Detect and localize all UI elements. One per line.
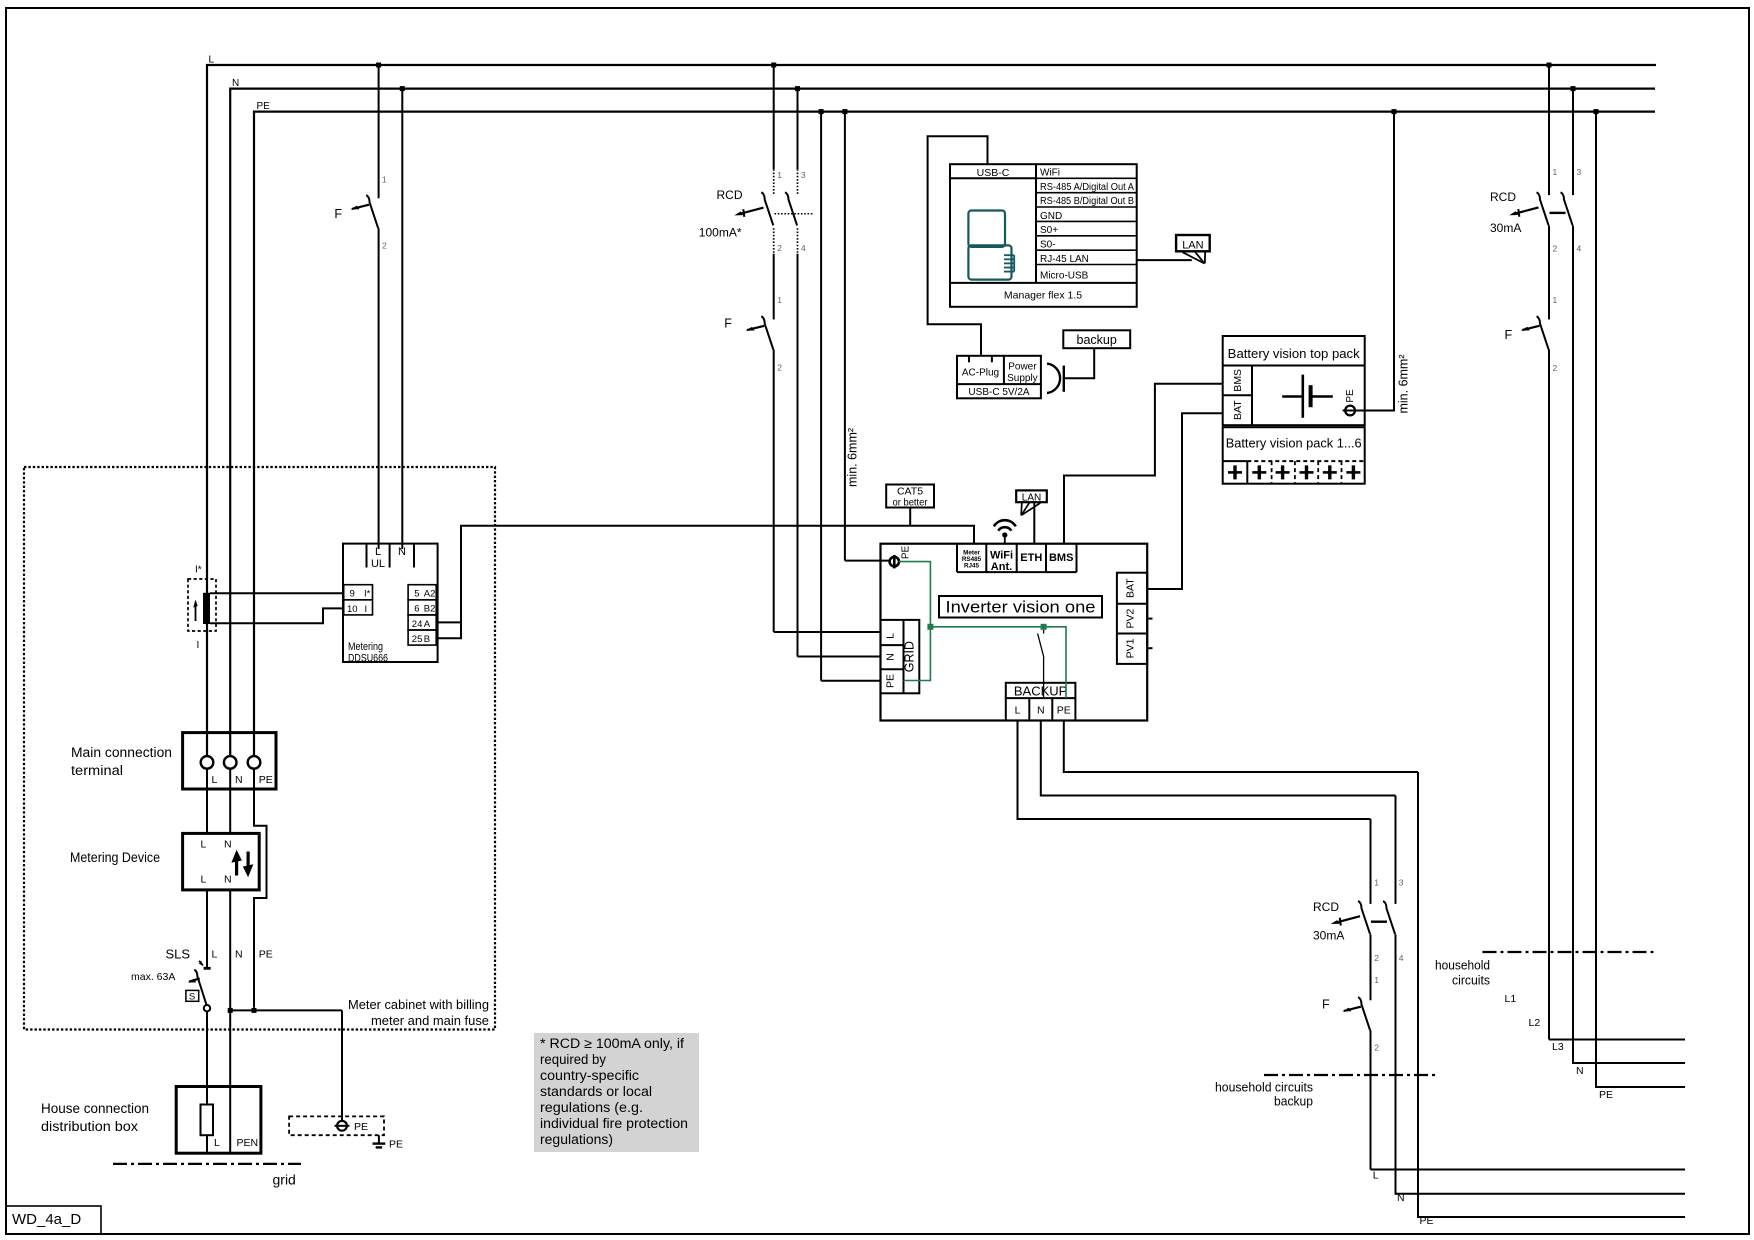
svg-text:PV1: PV1 — [1125, 638, 1137, 658]
svg-text:1: 1 — [1374, 975, 1379, 985]
svg-text:Inverter vision one: Inverter vision one — [946, 598, 1096, 617]
svg-text:S0-: S0- — [1040, 240, 1056, 251]
svg-text:1: 1 — [382, 175, 387, 185]
svg-text:regulations): regulations) — [540, 1132, 613, 1147]
svg-text:100mA*: 100mA* — [699, 226, 742, 240]
svg-text:5: 5 — [414, 589, 419, 600]
svg-text:Meter cabinet with billing: Meter cabinet with billing — [348, 997, 489, 1012]
svg-text:RJ45: RJ45 — [964, 563, 980, 570]
svg-text:I: I — [365, 604, 368, 615]
svg-text:household circuits: household circuits — [1215, 1080, 1313, 1095]
svg-text:individual fire protection: individual fire protection — [540, 1116, 688, 1131]
svg-text:RCD: RCD — [1313, 900, 1339, 914]
svg-text:PE: PE — [1057, 705, 1071, 717]
svg-text:Ant.: Ant. — [991, 561, 1012, 573]
svg-text:PV2: PV2 — [1125, 609, 1137, 629]
svg-text:L: L — [1015, 705, 1021, 717]
svg-text:max. 63A: max. 63A — [131, 971, 175, 983]
svg-text:B2: B2 — [424, 604, 436, 615]
svg-text:required by: required by — [540, 1052, 606, 1067]
svg-text:BMS: BMS — [1049, 552, 1073, 564]
svg-text:AC-Plug: AC-Plug — [962, 368, 999, 379]
svg-text:I*: I* — [195, 565, 202, 576]
svg-text:L: L — [375, 546, 381, 558]
svg-text:1: 1 — [1553, 295, 1558, 305]
svg-text:A2: A2 — [424, 589, 436, 600]
svg-text:PE: PE — [1599, 1089, 1613, 1101]
svg-text:PE: PE — [1345, 389, 1356, 403]
svg-text:BAT: BAT — [1232, 400, 1244, 420]
svg-text:L3: L3 — [1552, 1041, 1564, 1053]
svg-text:DDSU666: DDSU666 — [348, 653, 388, 665]
svg-text:USB-C: USB-C — [977, 167, 1010, 179]
svg-text:2: 2 — [1553, 363, 1558, 373]
svg-text:circuits: circuits — [1452, 973, 1490, 988]
svg-text:Main connection: Main connection — [71, 745, 172, 760]
svg-text:F: F — [724, 317, 732, 331]
svg-text:household: household — [1435, 958, 1490, 973]
svg-text:N: N — [232, 78, 239, 89]
svg-text:S: S — [189, 992, 195, 1003]
svg-text:PE: PE — [259, 774, 273, 786]
svg-text:PE: PE — [354, 1121, 368, 1133]
svg-text:A: A — [424, 619, 431, 630]
svg-text:2: 2 — [777, 243, 782, 253]
svg-text:SLS: SLS — [166, 947, 191, 962]
svg-text:I*: I* — [364, 589, 371, 600]
svg-text:L: L — [885, 633, 897, 639]
svg-text:Supply: Supply — [1007, 373, 1038, 384]
svg-text:BMS: BMS — [1232, 369, 1244, 392]
svg-text:BAT: BAT — [1125, 578, 1137, 598]
svg-text:standards or local: standards or local — [540, 1084, 652, 1099]
svg-text:PE: PE — [389, 1139, 403, 1151]
svg-text:N: N — [224, 874, 232, 886]
svg-text:USB-C 5V/2A: USB-C 5V/2A — [968, 387, 1029, 398]
svg-text:L: L — [209, 55, 215, 66]
svg-text:L1: L1 — [1505, 993, 1517, 1005]
svg-text:F: F — [1505, 328, 1513, 342]
svg-text:Battery vision pack 1...6: Battery vision pack 1...6 — [1226, 436, 1362, 451]
svg-text:PE: PE — [257, 101, 271, 112]
svg-text:min. 6mm²: min. 6mm² — [846, 428, 860, 487]
svg-text:2: 2 — [1374, 953, 1379, 963]
svg-text:meter and main fuse: meter and main fuse — [371, 1013, 489, 1028]
svg-text:GND: GND — [1040, 211, 1062, 222]
svg-text:PEN: PEN — [237, 1137, 259, 1149]
svg-text:GRID: GRID — [903, 641, 917, 672]
svg-text:BACKUP: BACKUP — [1014, 683, 1067, 698]
svg-text:3: 3 — [801, 170, 806, 180]
svg-text:Power: Power — [1008, 362, 1037, 373]
svg-text:3: 3 — [1577, 167, 1582, 177]
svg-text:* RCD ≥ 100mA only, if: * RCD ≥ 100mA only, if — [540, 1036, 684, 1051]
svg-text:N: N — [398, 546, 406, 558]
svg-text:2: 2 — [382, 241, 387, 251]
svg-text:1: 1 — [777, 170, 782, 180]
svg-text:4: 4 — [1577, 244, 1582, 254]
svg-text:Manager flex 1.5: Manager flex 1.5 — [1004, 290, 1082, 302]
svg-text:WiFi: WiFi — [1040, 168, 1060, 179]
svg-text:30mA: 30mA — [1490, 221, 1521, 235]
svg-text:L: L — [212, 774, 218, 786]
svg-text:F: F — [334, 207, 342, 221]
svg-text:Battery vision top pack: Battery vision top pack — [1228, 346, 1360, 361]
svg-text:min. 6mm²: min. 6mm² — [1397, 354, 1411, 413]
svg-text:1: 1 — [1374, 878, 1379, 888]
svg-text:2: 2 — [1553, 244, 1558, 254]
svg-text:PE: PE — [259, 949, 273, 961]
svg-text:F: F — [1322, 998, 1330, 1012]
svg-text:LAN: LAN — [1182, 239, 1203, 251]
svg-text:or better: or better — [893, 497, 928, 509]
svg-text:1: 1 — [1553, 167, 1558, 177]
svg-text:terminal: terminal — [71, 763, 123, 778]
svg-text:grid: grid — [273, 1172, 296, 1188]
svg-text:4: 4 — [801, 243, 806, 253]
svg-text:regulations (e.g.: regulations (e.g. — [540, 1100, 643, 1115]
svg-text:N: N — [1397, 1192, 1405, 1204]
svg-text:30mA: 30mA — [1313, 929, 1344, 943]
svg-text:L2: L2 — [1529, 1017, 1541, 1029]
svg-text:N: N — [885, 653, 897, 661]
svg-text:RS-485 B/Digital Out B: RS-485 B/Digital Out B — [1040, 196, 1134, 207]
svg-text:I: I — [197, 640, 200, 651]
svg-text:Metering Device: Metering Device — [70, 850, 160, 865]
svg-text:1: 1 — [777, 295, 782, 305]
svg-text:L: L — [201, 874, 207, 886]
svg-text:N: N — [1037, 705, 1045, 717]
svg-text:PE: PE — [1420, 1215, 1434, 1227]
svg-text:24: 24 — [412, 619, 423, 630]
svg-text:RJ-45 LAN: RJ-45 LAN — [1040, 254, 1089, 265]
svg-text:L: L — [212, 949, 218, 961]
svg-text:B: B — [424, 634, 430, 645]
svg-text:N: N — [1576, 1065, 1584, 1077]
svg-text:L: L — [1373, 1170, 1379, 1182]
svg-text:N: N — [224, 839, 232, 851]
svg-text:L: L — [214, 1137, 220, 1149]
svg-text:9: 9 — [350, 589, 355, 600]
svg-text:House connection: House connection — [41, 1101, 149, 1116]
svg-text:S0+: S0+ — [1040, 225, 1058, 236]
svg-text:3: 3 — [1399, 878, 1404, 888]
svg-text:2: 2 — [1374, 1043, 1379, 1053]
svg-text:distribution box: distribution box — [41, 1119, 138, 1134]
svg-text:N: N — [235, 774, 243, 786]
svg-text:2: 2 — [777, 363, 782, 373]
svg-text:backup: backup — [1077, 333, 1117, 347]
svg-text:UL: UL — [371, 558, 385, 570]
svg-text:country-specific: country-specific — [540, 1068, 639, 1083]
svg-text:backup: backup — [1274, 1094, 1313, 1109]
svg-text:10: 10 — [347, 604, 358, 615]
svg-text:RS-485 A/Digital Out A: RS-485 A/Digital Out A — [1040, 182, 1134, 193]
svg-text:PE: PE — [901, 546, 912, 560]
svg-text:LAN: LAN — [1022, 492, 1041, 503]
svg-text:Metering: Metering — [348, 641, 383, 653]
svg-text:RCD: RCD — [717, 188, 743, 202]
svg-text:WD_4a_D: WD_4a_D — [12, 1211, 81, 1228]
svg-text:Micro-USB: Micro-USB — [1040, 271, 1089, 282]
svg-text:RCD: RCD — [1490, 190, 1516, 204]
svg-text:ETH: ETH — [1020, 552, 1042, 564]
svg-text:N: N — [235, 949, 243, 961]
svg-text:L: L — [201, 839, 207, 851]
svg-text:PE: PE — [885, 674, 897, 688]
svg-text:4: 4 — [1399, 953, 1404, 963]
svg-text:WiFi: WiFi — [990, 550, 1013, 562]
svg-text:6: 6 — [414, 604, 419, 615]
svg-text:25: 25 — [412, 634, 423, 645]
